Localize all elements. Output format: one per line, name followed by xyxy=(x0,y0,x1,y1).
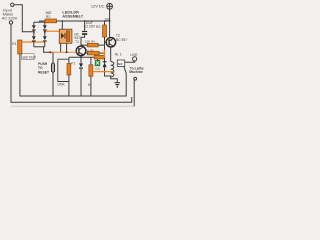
ground xyxy=(115,83,121,88)
node top rail at C2 xyxy=(84,20,86,22)
wire R2 left lead to bridge top xyxy=(40,21,45,22)
wire P1 top lead xyxy=(68,57,70,63)
resistor R2 xyxy=(45,19,57,23)
node T1 base junction with bridge feed xyxy=(49,51,51,53)
diode D5 xyxy=(79,63,83,67)
wire R5 right lead xyxy=(104,56,106,59)
node bridge AC tap left xyxy=(33,31,35,33)
terminal lathe neutral xyxy=(134,77,137,80)
wire T2 collector down to relay coil xyxy=(110,47,112,62)
relay coil RL1 xyxy=(111,62,114,77)
node bridge AC tap right xyxy=(44,31,46,33)
resistor R7 xyxy=(89,65,93,76)
wire T2 base lead xyxy=(105,41,107,43)
svg-text:100K: 100K xyxy=(57,82,66,86)
wire T2 base column down to flyback diode xyxy=(104,42,106,63)
wire LED cathode down from box xyxy=(60,43,62,52)
wire push switch top lead xyxy=(52,52,54,63)
diode D2 (bridge top-right) xyxy=(43,25,47,30)
wire (orange) T1 base line xyxy=(50,51,76,53)
diode D1 (bridge top-left) xyxy=(32,25,36,30)
wire R7 bottom lead to ground rail xyxy=(90,76,92,96)
svg-text:C2 25V: C2 25V xyxy=(84,24,96,28)
wire top supply rail xyxy=(57,20,110,22)
diode D3 (bridge bottom-left) xyxy=(32,36,36,41)
wire LIVE terminal to N/C contact xyxy=(125,61,135,62)
transistor T1 xyxy=(76,46,86,56)
svg-text:LD1: LD1 xyxy=(95,67,100,71)
wire input N down and along bottom neutral rail to relay pole riser xyxy=(11,24,132,102)
label SEE TEXT xyxy=(22,54,34,60)
terminal 12V DC positive xyxy=(107,3,113,9)
wire P1 bottom lead to ground rail xyxy=(68,75,70,96)
wire ground stub xyxy=(116,79,118,83)
wire R7 top lead xyxy=(90,57,92,65)
wire R1 bottom down along ground rail to contact arm pivot xyxy=(20,54,126,96)
resistor R4 xyxy=(87,43,98,47)
wire P1 top to emitter node and R5 xyxy=(69,56,94,58)
wire (orange) across relay coil xyxy=(93,71,114,73)
wire input L to bridge left AC tap xyxy=(14,5,33,32)
terminal LIVE xyxy=(133,57,137,61)
svg-text:N/C: N/C xyxy=(118,62,123,66)
wire lathe terminal down to bottom return xyxy=(133,80,135,106)
wire push switch bottom lead to ground rail xyxy=(52,73,54,97)
node top rail at LED box xyxy=(61,20,63,22)
svg-text:SEE TEXT: SEE TEXT xyxy=(22,55,36,59)
diode D4 (bridge bottom-right) xyxy=(43,36,47,41)
wire (orange) bridge right tap to LED/LDR box xyxy=(46,30,60,32)
wire (orange) R1 top to bridge bottom xyxy=(22,41,45,43)
svg-text:RL 1: RL 1 xyxy=(115,52,122,56)
wire R4 left lead to T1 collector xyxy=(81,44,87,46)
wire R6 right lead to T2 base column xyxy=(99,52,104,54)
svg-text:R3: R3 xyxy=(96,25,100,29)
svg-text:R2: R2 xyxy=(46,15,50,19)
svg-text:12V DC: 12V DC xyxy=(91,4,105,9)
relay contact N/C xyxy=(117,60,124,66)
capacitor C2 xyxy=(82,31,87,32)
wire R4 right lead to T2 base column xyxy=(98,44,104,46)
wire R3 bottom lead to T2 base xyxy=(104,37,106,42)
wire (orange segment) on T2 base column xyxy=(104,50,106,59)
resistor R3 xyxy=(103,25,107,37)
transistor T2 xyxy=(106,38,115,47)
svg-text:BC 557: BC 557 xyxy=(116,38,127,42)
preset P1 xyxy=(67,64,71,76)
svg-text:AC 220V: AC 220V xyxy=(2,16,18,21)
bridge rectifier frame wires xyxy=(34,22,45,47)
node T1 base junction with LDR xyxy=(66,51,68,53)
wire R3 top lead xyxy=(104,21,106,25)
push-to-reset switch S1 xyxy=(51,63,52,72)
wire D5 cathode down to ground rail xyxy=(80,69,82,96)
wire top rail into box top xyxy=(61,21,63,30)
svg-text:ASSEMBLY: ASSEMBLY xyxy=(62,15,83,19)
diode D6 (relay flyback) xyxy=(103,61,107,62)
resistor R1 xyxy=(18,40,22,54)
wire C2 top lead xyxy=(84,21,86,31)
svg-text:RESET: RESET xyxy=(38,70,49,74)
wire 12V terminal down to T2 emitter xyxy=(109,9,111,38)
wire C2 bottom to T1 collector xyxy=(81,35,85,47)
svg-text:Machine: Machine xyxy=(129,70,143,74)
wire D6 anode to relay coil bottom and ground stub xyxy=(105,67,118,79)
svg-text:T2: T2 xyxy=(116,33,120,37)
wire R6 left lead to T1 xyxy=(86,52,88,54)
relay contact arm xyxy=(124,66,126,73)
wire P1 wiper loop left and bottom xyxy=(58,59,69,81)
wire bridge bottom to T1 base node xyxy=(44,47,51,53)
wire P1 wiper loop top xyxy=(58,58,69,60)
LED LD1 (green indicator) xyxy=(95,59,100,66)
terminal mains input N xyxy=(9,21,12,24)
terminal mains input L xyxy=(11,3,14,6)
wire LDR bottom down from box xyxy=(66,43,68,52)
svg-text:T1: T1 xyxy=(75,40,79,44)
node emitter junction xyxy=(80,56,82,58)
wire bottom return (light) from lathe terminal along bottom xyxy=(11,105,134,107)
svg-text:R1: R1 xyxy=(12,42,16,46)
wire T1 emitter down to D5 xyxy=(80,56,82,64)
LED/LDR assembly box xyxy=(59,29,72,43)
svg-text:P1: P1 xyxy=(71,61,75,65)
resistor R5 xyxy=(94,55,104,59)
resistor R6 xyxy=(87,51,99,55)
node top rail at 12V feed xyxy=(109,20,111,22)
